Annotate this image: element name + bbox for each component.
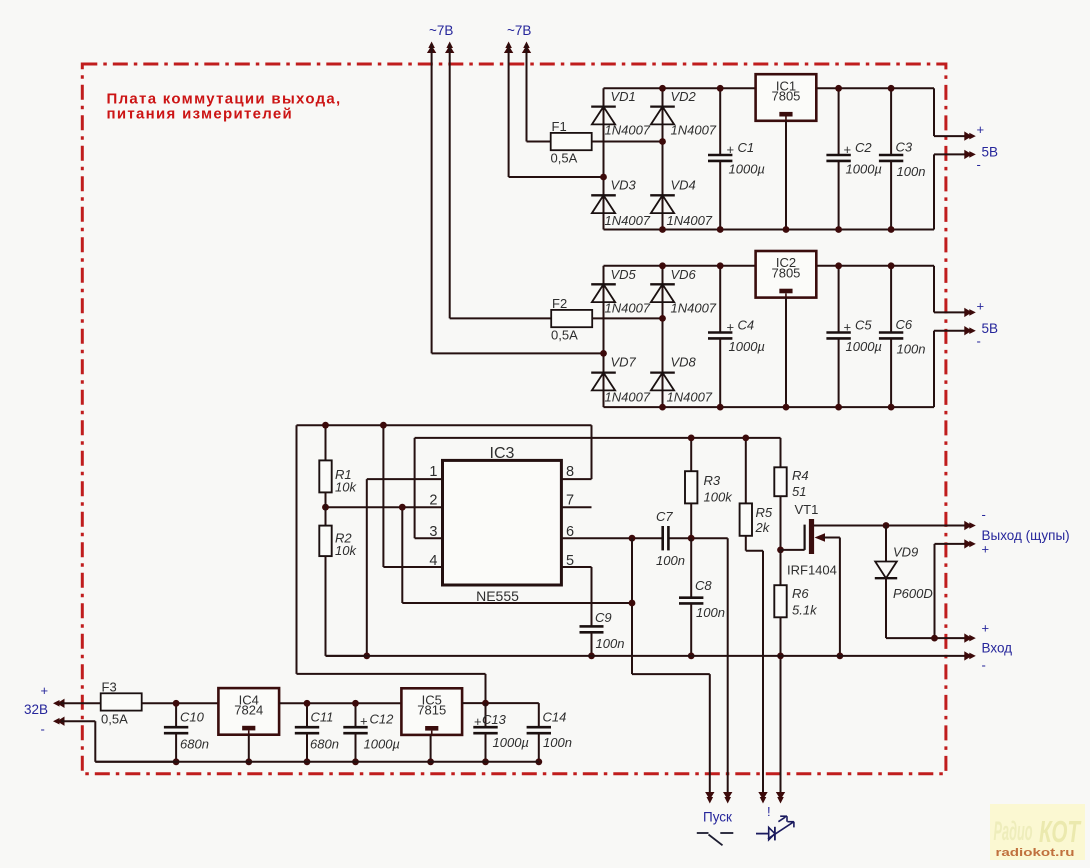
node IC5 gnd — [427, 758, 434, 765]
svg-text:2k: 2k — [755, 520, 771, 535]
svg-text:VD7: VD7 — [611, 355, 637, 370]
arrow 32V minus — [53, 717, 65, 726]
arrow Vkhod minus — [964, 651, 976, 660]
node C10 bottom — [173, 758, 180, 765]
svg-text:C14: C14 — [543, 710, 567, 725]
pin 5 number — [566, 553, 574, 569]
svg-text:+: + — [844, 142, 852, 157]
svg-text:0,5А: 0,5А — [551, 328, 578, 343]
svg-text:R4: R4 — [792, 468, 809, 483]
node C13 bottom — [482, 758, 489, 765]
svg-text:7805: 7805 — [771, 265, 800, 280]
svg-text:10k: 10k — [335, 543, 357, 558]
svg-text:!: ! — [767, 804, 771, 819]
svg-text:1000µ: 1000µ — [729, 162, 765, 177]
fuse F1 — [551, 119, 592, 166]
svg-text:~7В: ~7В — [429, 23, 453, 38]
wire output2 plus — [934, 266, 966, 313]
arrow AC1b up — [445, 42, 454, 54]
svg-text:питания измерителей: питания измерителей — [107, 106, 294, 123]
svg-text:C12: C12 — [370, 712, 395, 727]
svg-text:100k: 100k — [704, 490, 734, 505]
arrow AC1a up — [427, 42, 436, 54]
svg-text:5В: 5В — [982, 321, 999, 336]
arrow AC2b up — [522, 42, 531, 54]
diode VD4 — [650, 178, 713, 229]
wire to Pusk1 — [632, 674, 710, 794]
arrow Pusk1 down — [705, 792, 714, 804]
diode VD1 — [591, 89, 651, 138]
node bridge2 right mid — [659, 315, 666, 322]
node C3 bottom — [888, 226, 895, 233]
wire pin6 corner to Pusk2 — [727, 538, 729, 794]
svg-text:C3: C3 — [896, 140, 913, 155]
svg-text:IC3: IC3 — [490, 445, 515, 462]
node C6 bottom — [888, 404, 895, 411]
terminal 5B #1 labels — [977, 122, 999, 172]
node Vkhod join — [931, 635, 938, 642]
wire bridge1 left column — [603, 88, 605, 229]
node C4 top — [717, 262, 724, 269]
pin 3 number — [429, 524, 437, 540]
svg-text:radiokot.ru: radiokot.ru — [996, 847, 1075, 859]
node C12 bottom — [352, 758, 359, 765]
node source gnd — [837, 653, 844, 660]
svg-text:C10: C10 — [180, 710, 205, 725]
svg-text:7815: 7815 — [417, 703, 446, 718]
wire IC2 gnd pin — [785, 298, 787, 408]
svg-text:1000µ: 1000µ — [846, 162, 882, 177]
resistor R6 — [774, 550, 818, 794]
wire pin4 line — [383, 425, 442, 567]
svg-text:КОТ: КОТ — [1039, 814, 1082, 849]
node R5 top — [742, 435, 749, 442]
svg-text:1N4007: 1N4007 — [605, 123, 651, 138]
svg-text:1000µ: 1000µ — [493, 735, 529, 750]
wire output2 minus — [934, 331, 966, 407]
svg-text:F1: F1 — [552, 119, 567, 134]
capacitor C2 — [826, 88, 882, 229]
wire bridge2 bottom rail — [604, 406, 935, 408]
node C3 top — [888, 85, 895, 92]
svg-text:Пуск: Пуск — [703, 810, 732, 825]
node C5 top — [835, 262, 842, 269]
wire 32V plus to F3 — [61, 702, 101, 704]
fuse F3 — [101, 680, 142, 727]
svg-text:F3: F3 — [102, 680, 117, 695]
node pin2 R1R2 — [322, 504, 329, 511]
node C2 top — [835, 85, 842, 92]
svg-text:VT1: VT1 — [795, 502, 819, 517]
svg-text:51: 51 — [792, 484, 806, 499]
wire pin1 to ground rail — [367, 479, 443, 656]
node C1 bottom — [717, 226, 724, 233]
diode VD6 — [650, 267, 717, 316]
terminal Vkhod labels — [982, 621, 1013, 673]
svg-text:-: - — [982, 507, 986, 522]
wire drain to output — [886, 525, 966, 527]
node trig join — [629, 600, 636, 607]
svg-text:C2: C2 — [855, 140, 872, 155]
node R3 bottom — [688, 535, 695, 542]
op-amp IC2 7805 regulator — [756, 251, 817, 298]
node bridge2 bottom VD8 — [659, 404, 666, 411]
svg-text:-: - — [982, 658, 986, 673]
capacitor C13 — [473, 703, 529, 762]
wire F1 to bridge1 right node — [592, 141, 663, 143]
svg-text:100n: 100n — [543, 735, 572, 750]
node R6 gnd — [777, 653, 784, 660]
resistor R2 — [319, 507, 367, 656]
capacitor C9 — [580, 610, 625, 656]
svg-text:C9: C9 — [595, 610, 612, 625]
node drain VD9 — [883, 522, 890, 529]
node C2 bottom — [835, 226, 842, 233]
node pin1 gnd — [363, 653, 370, 660]
wire bridge2 top rail — [604, 265, 935, 267]
wire bridge1 top rail — [604, 87, 935, 89]
arrow output1 plus — [964, 131, 976, 140]
node C6 top — [888, 262, 895, 269]
LED symbol — [756, 816, 794, 840]
node IC5 out — [482, 700, 489, 707]
diode VD7 — [591, 355, 651, 405]
op-amp IC4 7824 regulator — [218, 688, 279, 735]
node bridge1 right mid — [659, 138, 666, 145]
arrow Pusk2 down — [723, 792, 732, 804]
svg-text:Выход (щупы): Выход (щупы) — [982, 528, 1070, 543]
switch symbol — [697, 833, 734, 845]
node bridge1 top VD2 — [659, 85, 666, 92]
svg-text:C4: C4 — [738, 318, 755, 333]
svg-text:100n: 100n — [596, 636, 625, 651]
wire AC1b down to F2 — [450, 44, 552, 318]
svg-text:VD9: VD9 — [893, 545, 918, 560]
wire pin2 jog down — [402, 507, 632, 603]
terminal ~7B (right pair label) — [507, 23, 531, 38]
capacitor C5 — [826, 266, 882, 407]
arrow 32V plus — [53, 699, 65, 708]
resistor R4 — [774, 438, 808, 550]
wire pin5 to C9 — [561, 567, 591, 626]
node C5 bottom — [835, 404, 842, 411]
svg-text:-: - — [977, 157, 981, 172]
diode VD5 — [591, 267, 651, 316]
svg-text:2: 2 — [429, 493, 437, 509]
diode VD8 — [650, 355, 713, 405]
terminal ~7B (left pair label) — [429, 23, 453, 38]
svg-text:+: + — [982, 621, 990, 636]
resistor R5 — [740, 438, 773, 551]
wire R5 to LED arrow — [762, 551, 764, 794]
capacitor C10 — [164, 703, 209, 762]
pin 6 number — [566, 524, 574, 540]
svg-text:+: + — [977, 122, 985, 137]
svg-text:R5: R5 — [756, 505, 773, 520]
pin 8 number — [566, 464, 574, 480]
node C11 top — [304, 700, 311, 707]
svg-text:5В: 5В — [982, 145, 999, 160]
diode VD3 — [591, 178, 651, 229]
diode VD2 — [650, 89, 717, 138]
node C10 top — [173, 700, 180, 707]
arrow output2 minus — [964, 326, 976, 335]
svg-text:0,5А: 0,5А — [551, 151, 578, 166]
svg-text:100n: 100n — [696, 605, 725, 620]
node C8 gnd — [688, 653, 695, 660]
svg-text:P600D: P600D — [893, 586, 933, 601]
capacitor C12 — [343, 703, 400, 762]
wire pin3 line — [415, 438, 781, 538]
svg-text:C11: C11 — [311, 710, 334, 725]
node pin6 branch — [629, 535, 636, 542]
svg-text:7: 7 — [566, 493, 574, 509]
wire +15V rail — [297, 424, 592, 426]
wire bottom supply rail — [95, 761, 539, 763]
svg-text:1N4007: 1N4007 — [667, 213, 713, 228]
svg-text:1N4007: 1N4007 — [667, 390, 713, 405]
svg-text:Радио: Радио — [994, 816, 1033, 846]
capacitor C3 — [879, 88, 926, 229]
wire pin2 line — [326, 506, 443, 508]
resistor R1 — [319, 425, 357, 507]
wire AC2a down to bridge1 left node — [509, 44, 604, 177]
terminal Vykhod labels — [982, 507, 1070, 557]
svg-text:-: - — [977, 334, 981, 349]
capacitor C6 — [879, 266, 926, 407]
svg-text:1N4007: 1N4007 — [671, 301, 717, 316]
svg-text:100n: 100n — [656, 553, 685, 568]
wire 32V minus return — [61, 721, 176, 762]
svg-text:NE555: NE555 — [476, 588, 519, 604]
op-amp IC3 NE555 — [443, 445, 562, 604]
svg-text:+: + — [474, 714, 482, 729]
svg-text:C6: C6 — [896, 317, 913, 332]
arrow LED cathode down — [776, 792, 785, 804]
resistor R3 — [685, 438, 733, 538]
capacitor C8 — [679, 538, 725, 656]
node pin4 rail — [380, 422, 387, 429]
wire pin8 to rail — [561, 425, 591, 479]
svg-text:+: + — [41, 683, 49, 698]
wire Vkhod plus — [886, 637, 966, 639]
svg-text:R6: R6 — [792, 586, 809, 601]
wire pin7 stub — [561, 506, 591, 508]
wire pin6 branch down — [631, 538, 633, 674]
svg-text:F2: F2 — [552, 296, 567, 311]
wire bridge1 bottom rail — [604, 229, 935, 231]
svg-text:680n: 680n — [180, 737, 209, 752]
svg-text:+: + — [982, 542, 990, 557]
node bridge2 top VD6 — [659, 262, 666, 269]
svg-text:+: + — [727, 142, 735, 157]
svg-text:+: + — [977, 299, 985, 314]
wire output probes plus — [935, 544, 967, 638]
pin 4 number — [429, 553, 437, 569]
svg-text:1: 1 — [429, 464, 437, 480]
svg-text:1000µ: 1000µ — [729, 339, 765, 354]
node IC4 gnd — [245, 758, 252, 765]
wire bridge2 right column — [662, 266, 664, 407]
diode VD9 — [875, 526, 933, 639]
node bridge1 bottom VD4 — [659, 226, 666, 233]
svg-text:1000µ: 1000µ — [846, 339, 882, 354]
svg-text:C13: C13 — [482, 712, 507, 727]
svg-text:8: 8 — [566, 464, 574, 480]
wire IC5 gnd pin2 — [430, 735, 432, 762]
node pin2 jog — [399, 504, 406, 511]
board outline (red dash-dot border) — [82, 64, 946, 774]
wire output1 plus — [934, 88, 966, 136]
node bridge1 left mid — [600, 174, 607, 181]
wire IC4 gnd pin2 — [248, 735, 250, 762]
svg-text:C8: C8 — [695, 578, 712, 593]
capacitor C11 — [295, 703, 339, 762]
svg-text:7805: 7805 — [771, 89, 800, 104]
svg-text:VD5: VD5 — [611, 267, 637, 282]
svg-text:1N4007: 1N4007 — [605, 390, 651, 405]
svg-text:10k: 10k — [335, 480, 357, 495]
svg-text:C7: C7 — [656, 509, 673, 524]
svg-text:-: - — [41, 722, 45, 737]
arrow Vkhod plus — [964, 633, 976, 642]
svg-text:VD1: VD1 — [611, 89, 636, 104]
op-amp IC1 7805 regulator — [756, 74, 817, 121]
svg-text:R3: R3 — [704, 473, 721, 488]
svg-text:VD6: VD6 — [671, 267, 697, 282]
capacitor C14 — [527, 710, 572, 762]
arrow output probes plus — [964, 539, 976, 548]
wire pin6 line — [561, 537, 727, 539]
arrow output probes minus — [964, 521, 976, 530]
pin 7 number — [566, 493, 574, 509]
svg-text:+: + — [727, 320, 735, 335]
capacitor C4 — [708, 266, 765, 407]
node C11 bottom — [304, 758, 311, 765]
terminal 5B #2 labels — [977, 299, 999, 349]
svg-text:1N4007: 1N4007 — [671, 123, 717, 138]
wire IC4 to IC5 — [279, 702, 401, 704]
node C4 bottom — [717, 404, 724, 411]
svg-text:VD3: VD3 — [611, 178, 637, 193]
node gate — [777, 547, 784, 554]
svg-text:C1: C1 — [738, 140, 755, 155]
svg-text:IRF1404: IRF1404 — [787, 563, 837, 578]
node bridge2 left mid — [600, 350, 607, 357]
svg-text:680n: 680n — [310, 737, 339, 752]
wire +15V feed from IC5 — [297, 425, 486, 703]
svg-text:+: + — [360, 714, 368, 729]
node C1 top — [717, 85, 724, 92]
svg-text:5.1k: 5.1k — [792, 603, 818, 618]
node C12 top — [352, 700, 359, 707]
arrow output1 minus — [964, 150, 976, 159]
node IC2 gnd — [783, 404, 790, 411]
svg-text:1000µ: 1000µ — [364, 737, 400, 752]
label LED exclamation — [767, 804, 771, 819]
capacitor C1 — [708, 88, 765, 229]
node IC1 gnd — [783, 226, 790, 233]
node R1 top — [322, 422, 329, 429]
wire AC2b down to F1 — [527, 44, 551, 142]
wire IC5 output — [462, 703, 539, 727]
svg-text:7824: 7824 — [234, 703, 263, 718]
node R3 top — [688, 435, 695, 442]
svg-text:VD2: VD2 — [671, 89, 697, 104]
wire bridge2 left column — [603, 266, 605, 407]
wire AC1a down to bridge2 left node — [432, 44, 604, 353]
node C9 gnd — [588, 653, 595, 660]
watermark radiokot — [990, 804, 1085, 860]
svg-text:VD8: VD8 — [671, 355, 697, 370]
wire F3 to IC4 — [142, 702, 219, 704]
svg-text:1N4007: 1N4007 — [605, 213, 651, 228]
arrow AC2a up — [504, 42, 513, 54]
op-amp IC5 7815 regulator — [401, 688, 462, 735]
svg-text:0,5А: 0,5А — [101, 712, 128, 727]
label Pusk — [703, 810, 732, 825]
wire bridge1 right column — [662, 88, 664, 229]
svg-text:Вход: Вход — [982, 641, 1013, 656]
transistor VT1 IRF1404 — [781, 502, 887, 656]
svg-text:+: + — [844, 320, 852, 335]
pin 1 number — [429, 464, 437, 480]
terminal 32V labels — [24, 683, 48, 737]
arrow output2 plus — [964, 308, 976, 317]
svg-text:32В: 32В — [24, 702, 48, 717]
svg-text:1N4007: 1N4007 — [605, 301, 651, 316]
title text — [107, 91, 342, 123]
svg-text:C5: C5 — [855, 318, 872, 333]
arrow LED anode down — [758, 792, 767, 804]
svg-text:100n: 100n — [897, 342, 926, 357]
wire F2 to bridge2 right node — [592, 317, 662, 319]
svg-text:VD4: VD4 — [671, 178, 696, 193]
pin 2 number — [429, 493, 437, 509]
node C14 bottom — [535, 758, 542, 765]
svg-text:100n: 100n — [897, 164, 926, 179]
wire IC1 gnd pin — [785, 121, 787, 230]
fuse F2 — [551, 296, 592, 343]
capacitor C7 — [656, 509, 685, 568]
wire ground rail — [326, 655, 967, 657]
svg-text:~7В: ~7В — [507, 23, 531, 38]
wire output1 minus — [934, 154, 966, 229]
